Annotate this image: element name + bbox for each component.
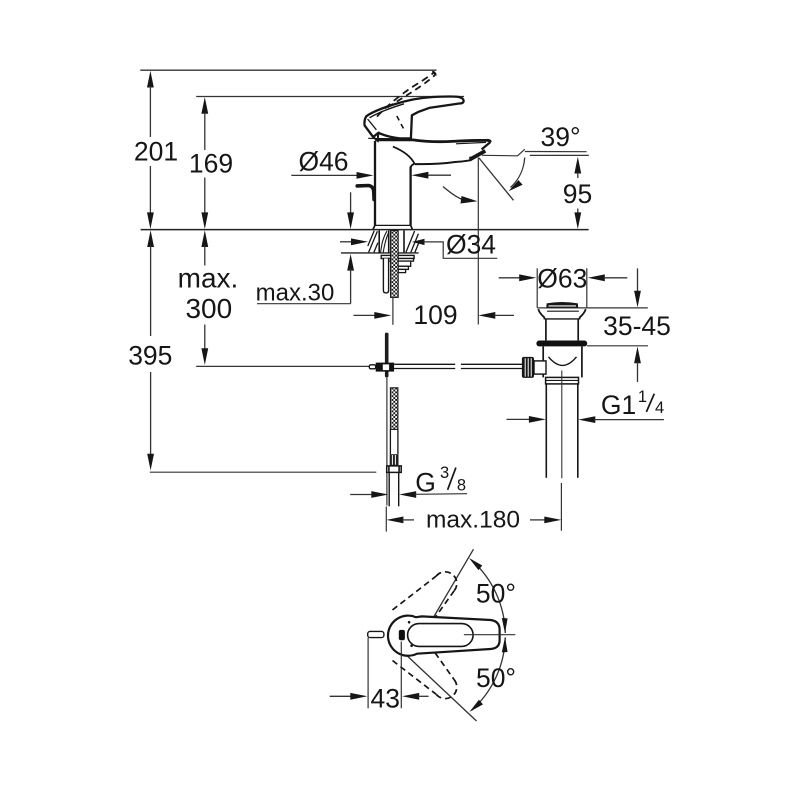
- svg-text:43: 43: [370, 684, 399, 714]
- 39 degree angle arc with arrow: [509, 158, 525, 192]
- plan view: lower 50deg arc with arrows: [470, 637, 508, 712]
- drain flange: [538, 309, 585, 340]
- dimension 169: [189, 97, 233, 229]
- label Ø46 with arrows: [291, 147, 451, 179]
- plan view: upper 50deg arc with arrows: [469, 558, 508, 633]
- extension line at G3/8 level (395 bottom ref): [150, 471, 376, 473]
- centerline below stud: [392, 297, 394, 324]
- svg-text:35-45: 35-45: [603, 311, 671, 341]
- plan view: 43 extension lines: [368, 638, 401, 709]
- svg-text:109: 109: [413, 300, 457, 330]
- mounting washer below deck: [381, 255, 414, 258]
- flow arc arrow: [443, 187, 478, 204]
- thin pull rod hanging down: [386, 377, 388, 505]
- G3/8 dimension: [350, 464, 467, 498]
- deck hatching right of shank: [406, 231, 419, 252]
- label Ø34 with leader: [340, 229, 497, 259]
- dimension Ø63: [499, 263, 628, 293]
- drain Ø63 extension lines: [537, 268, 587, 308]
- plan view: dashed lever rotated down: [393, 653, 457, 699]
- hose lower tube: [390, 429, 398, 454]
- threaded shank between deck lines: [379, 231, 404, 253]
- mounting nut steps: [384, 259, 413, 273]
- svg-text:G1: G1: [601, 390, 636, 420]
- svg-text:max.30: max.30: [256, 279, 335, 306]
- threaded stud (checkered) through shank: [391, 231, 399, 298]
- svg-text:3: 3: [440, 464, 449, 482]
- 109 extension line (spout outlet): [477, 158, 479, 325]
- svg-text:169: 169: [189, 148, 233, 178]
- dimension G1 1/4: [507, 388, 665, 423]
- plan view: 50deg reference line lower: [402, 651, 477, 721]
- plan view: index dots: [408, 621, 413, 647]
- plan view: logo mark on pivot: [399, 630, 405, 640]
- pop-up rod knob at back of body: [357, 186, 374, 200]
- plan view: 50deg reference line upper: [432, 549, 474, 620]
- G3/8 connector nut: [387, 466, 402, 473]
- svg-text:39°: 39°: [541, 122, 581, 152]
- plan view: limiter tab: [368, 631, 384, 637]
- hose hex nut: [390, 454, 399, 465]
- dimension 95: [563, 157, 592, 229]
- dimension max.300: [178, 230, 239, 365]
- svg-text:Ø34: Ø34: [446, 229, 496, 259]
- faucet body outline: [368, 138, 490, 229]
- plan view: label 50deg upper: [476, 579, 516, 609]
- svg-text:395: 395: [128, 340, 172, 370]
- faucet lever (solid): [364, 96, 463, 140]
- plan view: lever top ridge: [408, 624, 474, 647]
- reference line 169 level: [196, 96, 464, 98]
- drain valve body: [543, 346, 582, 377]
- dimension 109: [354, 300, 515, 330]
- svg-text:4: 4: [655, 399, 664, 417]
- plan view: solid lever: [388, 616, 500, 656]
- deck underside line: [341, 252, 419, 254]
- svg-text:max.180: max.180: [426, 507, 520, 534]
- dimension 35-45: [603, 268, 671, 382]
- pop-up rod T-connector: [369, 363, 394, 372]
- svg-text:50°: 50°: [476, 579, 516, 609]
- rod level line (max.300 bottom ref): [196, 365, 369, 367]
- drain collar: [546, 377, 579, 384]
- dimension 43: [330, 684, 429, 714]
- plan view: dashed lever rotated up: [393, 572, 457, 618]
- svg-text:201: 201: [134, 137, 178, 167]
- dimension 201: [134, 71, 178, 229]
- pop-up vertical rod: [385, 333, 389, 378]
- drain O-ring seal: [536, 341, 587, 347]
- drain side knob (knurled): [522, 357, 546, 378]
- flexible hose (checkered): [390, 388, 398, 430]
- plan view: centerline: [464, 634, 515, 636]
- dimension max.30 (deck thickness): [256, 192, 354, 306]
- svg-text:Ø63: Ø63: [537, 263, 587, 293]
- svg-text:300: 300: [185, 293, 232, 324]
- water stream direction line: [479, 158, 514, 200]
- pull rod guide tube: [383, 259, 388, 293]
- svg-text:8: 8: [457, 477, 466, 495]
- svg-text:max.: max.: [178, 263, 239, 294]
- dimension 395: [128, 230, 172, 470]
- svg-text:1: 1: [638, 388, 647, 406]
- svg-text:Ø46: Ø46: [298, 147, 348, 177]
- drain plug cap: [546, 302, 578, 308]
- deck hatching left of shank: [368, 231, 378, 253]
- horizontal rod to drain: [394, 364, 522, 368]
- 35-45 extension line lower: [587, 345, 648, 347]
- drain tailpipe: [546, 371, 578, 479]
- svg-text:50°: 50°: [476, 663, 516, 693]
- label 39 degrees with reference lines: [482, 122, 589, 156]
- deck / mounting surface line: [141, 229, 589, 231]
- svg-text:95: 95: [563, 179, 592, 209]
- dimension max.180: [386, 483, 561, 534]
- G3/8 tail tube: [389, 472, 399, 506]
- drain basin deck line: [537, 307, 648, 309]
- reference line top (201 level): [140, 69, 436, 71]
- plan view: label 50deg lower: [476, 663, 516, 693]
- faucet handle raised (dashed): [377, 72, 435, 129]
- svg-text:G: G: [415, 468, 436, 498]
